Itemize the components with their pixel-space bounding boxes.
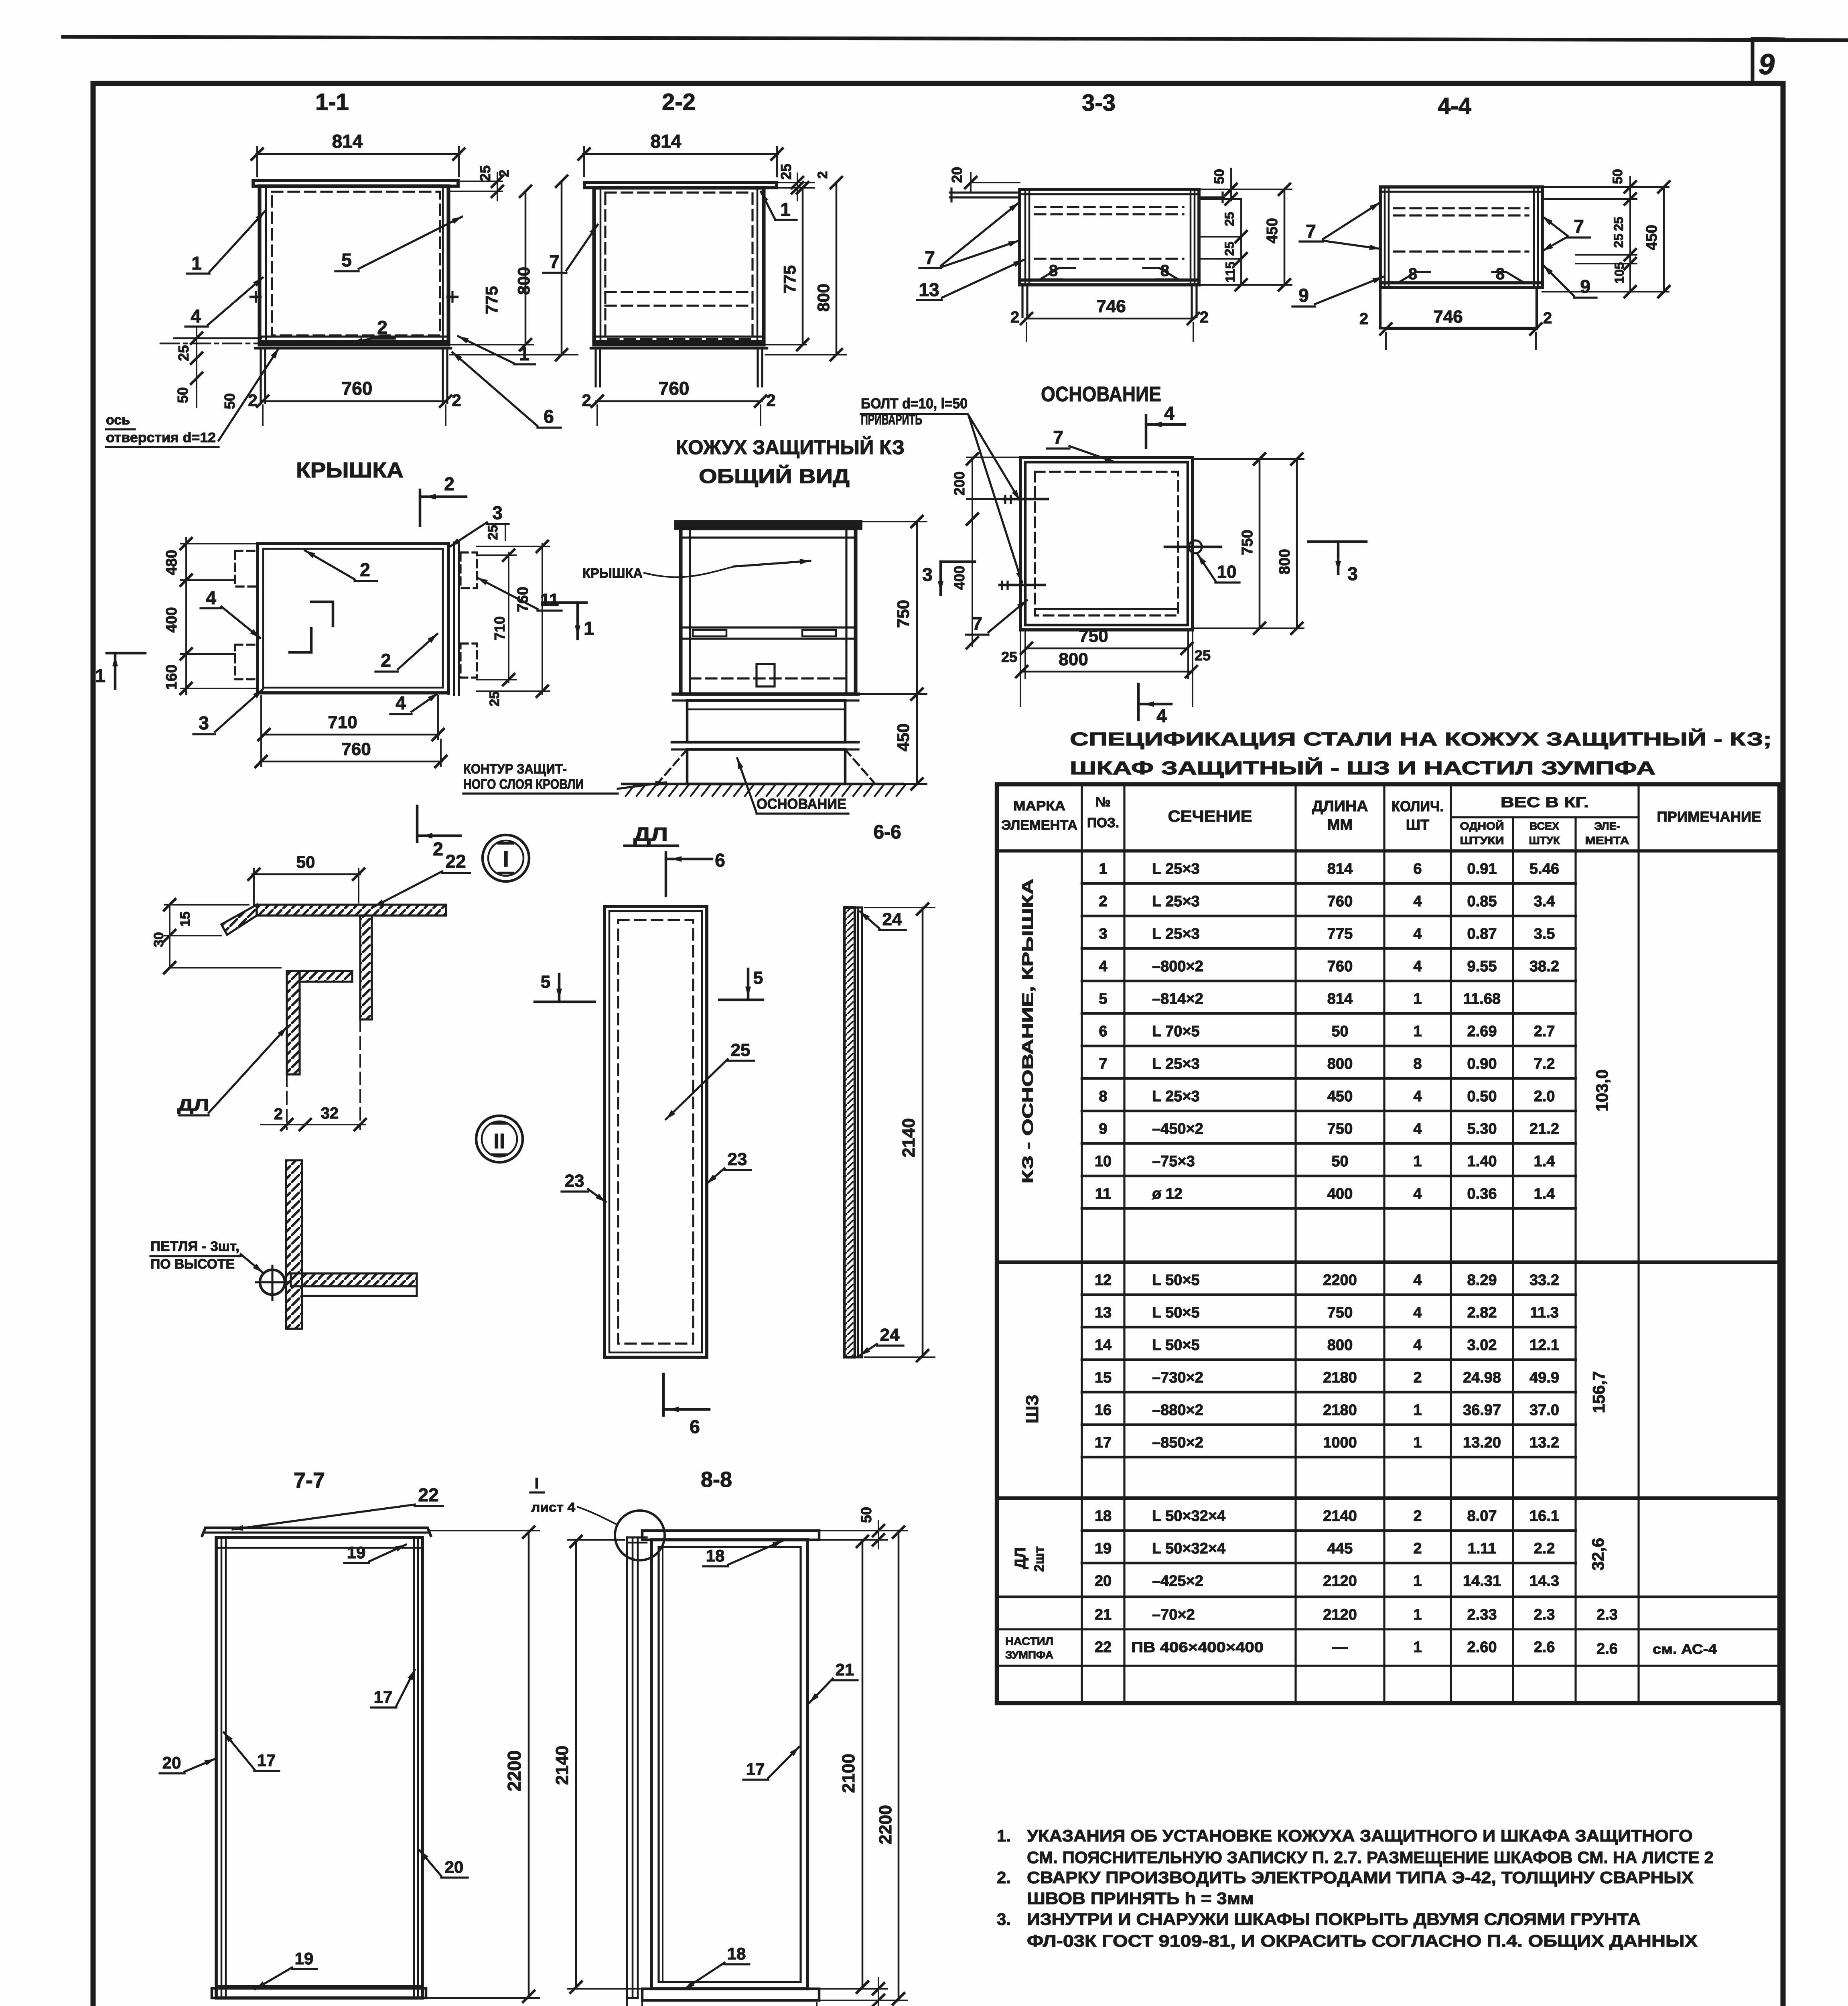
- svg-text:115: 115: [1223, 262, 1237, 282]
- svg-text:4: 4: [1413, 1088, 1422, 1105]
- svg-text:4: 4: [1413, 926, 1422, 942]
- svg-text:6: 6: [690, 1416, 700, 1437]
- svg-text:ШВОВ ПРИНЯТЬ h = 3мм: ШВОВ ПРИНЯТЬ h = 3мм: [1027, 1889, 1254, 1908]
- svg-text:775: 775: [1327, 926, 1353, 942]
- svg-text:50: 50: [1331, 1153, 1348, 1170]
- 7-7 body outline: [216, 1537, 422, 1998]
- svg-text:1.: 1.: [997, 1826, 1011, 1845]
- svg-text:800: 800: [514, 267, 533, 295]
- view 2-2 horizontal dashed shelf lines: [605, 291, 753, 293]
- svg-text:814: 814: [1327, 861, 1353, 877]
- svg-text:3-3: 3-3: [1082, 90, 1116, 116]
- kryshka main rect: [258, 544, 448, 693]
- detail I vertical web hatched: [360, 916, 372, 1019]
- view 3-3 dashed lines: [1035, 206, 1183, 208]
- detail I corner angle hatched: [287, 971, 352, 1074]
- svg-text:2200: 2200: [504, 1750, 525, 1791]
- view 4-4 base block below: [1380, 288, 1537, 328]
- svg-text:4: 4: [191, 306, 201, 327]
- svg-text:2: 2: [1543, 309, 1552, 327]
- svg-text:НАСТИЛ: НАСТИЛ: [1005, 1635, 1053, 1647]
- svg-text:2: 2: [1200, 309, 1209, 326]
- svg-text:2: 2: [452, 391, 461, 410]
- kryshka marker 1 left: [107, 652, 145, 655]
- 8-8 dim 50 bottom right: [821, 1988, 887, 1990]
- osnovanie section marker 4 bottom: [1137, 684, 1140, 720]
- svg-text:L 50×5: L 50×5: [1152, 1272, 1200, 1289]
- svg-text:ЗУМПФА: ЗУМПФА: [1005, 1649, 1053, 1661]
- svg-text:13: 13: [1095, 1304, 1112, 1321]
- svg-text:3.4: 3.4: [1534, 893, 1555, 910]
- svg-text:–880×2: –880×2: [1152, 1402, 1203, 1419]
- svg-text:2-2: 2-2: [662, 89, 696, 115]
- DL section marker 6 bottom: [662, 1374, 665, 1415]
- view 3-3 dim 20 top-left: [971, 182, 1020, 183]
- svg-text:1: 1: [1413, 1573, 1422, 1590]
- svg-text:18: 18: [706, 1546, 725, 1565]
- svg-text:5.30: 5.30: [1467, 1121, 1497, 1137]
- svg-text:2: 2: [497, 170, 512, 177]
- spec table row lines: [1082, 882, 1576, 885]
- svg-text:20: 20: [162, 1753, 181, 1772]
- svg-text:22: 22: [445, 851, 466, 872]
- 8-8 detail circle: [615, 1511, 665, 1560]
- svg-text:2.6: 2.6: [1534, 1639, 1555, 1656]
- 8-8 dim 2200: [821, 2000, 907, 2001]
- kozhuh right dims 750 450: [861, 521, 927, 522]
- view 4-4 right dims: [1542, 186, 1669, 188]
- svg-text:16.1: 16.1: [1530, 1508, 1559, 1525]
- svg-text:9.55: 9.55: [1467, 958, 1497, 975]
- svg-text:ЭЛЕ-: ЭЛЕ-: [1594, 820, 1620, 832]
- svg-text:–450×2: –450×2: [1152, 1121, 1203, 1137]
- svg-text:22: 22: [418, 1484, 438, 1505]
- kryshka section marker 2 bottom: [416, 806, 419, 842]
- svg-text:6: 6: [715, 850, 725, 871]
- section marker 5 left: [535, 1001, 594, 1003]
- view 2-2 bottom rail: [591, 347, 767, 350]
- svg-text:ШТ: ШТ: [1406, 816, 1429, 833]
- svg-text:2.69: 2.69: [1467, 1023, 1497, 1040]
- section marker 3 right of osnovanie: [1308, 540, 1366, 543]
- svg-text:2: 2: [444, 473, 454, 494]
- 8-8 dim 750: [641, 2003, 643, 2006]
- svg-text:5: 5: [753, 968, 763, 988]
- svg-text:814: 814: [651, 131, 682, 152]
- svg-text:ЭЛЕМЕНТА: ЭЛЕМЕНТА: [1001, 818, 1077, 833]
- svg-text:3.: 3.: [997, 1910, 1011, 1929]
- svg-text:СМ. ПОЯСНИТЕЛЬНУЮ ЗАПИСКУ П: СМ. ПОЯСНИТЕЛЬНУЮ ЗАПИСКУ П. 2.7. РАЗМЕЩ…: [1027, 1848, 1714, 1867]
- svg-text:16: 16: [1095, 1402, 1112, 1419]
- svg-text:50: 50: [1610, 169, 1625, 184]
- svg-text:КРЫШКА: КРЫШКА: [582, 566, 643, 581]
- section marker 5 right: [719, 999, 763, 1001]
- svg-text:–425×2: –425×2: [1152, 1573, 1203, 1590]
- svg-text:7.2: 7.2: [1534, 1056, 1555, 1072]
- detail II hinge: [260, 1270, 285, 1295]
- svg-text:1.4: 1.4: [1534, 1153, 1555, 1170]
- svg-text:400: 400: [163, 607, 180, 632]
- svg-text:6: 6: [1099, 1023, 1107, 1040]
- svg-text:4: 4: [1413, 1121, 1422, 1137]
- svg-text:1: 1: [1413, 1023, 1422, 1040]
- osnovanie left bolts: [1003, 498, 1048, 501]
- svg-text:105: 105: [1612, 262, 1627, 283]
- svg-text:8: 8: [1099, 1088, 1107, 1105]
- view 1-1 right dims: [450, 181, 502, 182]
- svg-text:19: 19: [295, 1949, 314, 1968]
- svg-text:15: 15: [1095, 1369, 1112, 1386]
- view 4-4 bottom thick line: [1380, 281, 1542, 284]
- svg-text:21: 21: [1095, 1606, 1112, 1623]
- svg-text:2.: 2.: [997, 1868, 1011, 1887]
- svg-text:25: 25: [1195, 647, 1211, 664]
- view 1-1 dim 814: [256, 153, 460, 155]
- detail I top angle bar hatched: [221, 905, 446, 935]
- svg-text:2140: 2140: [1323, 1508, 1357, 1525]
- svg-text:4: 4: [1099, 958, 1107, 975]
- svg-text:10: 10: [1217, 562, 1237, 582]
- svg-text:0.90: 0.90: [1467, 1056, 1497, 1072]
- detail I circle: [483, 835, 529, 881]
- svg-text:814: 814: [332, 131, 363, 152]
- svg-text:4: 4: [206, 587, 216, 608]
- svg-text:800: 800: [1327, 1337, 1353, 1354]
- svg-text:5: 5: [1099, 991, 1107, 1007]
- svg-text:2140: 2140: [899, 1118, 919, 1157]
- svg-text:3: 3: [922, 564, 933, 585]
- svg-text:32,6: 32,6: [1588, 1538, 1607, 1571]
- svg-text:814: 814: [1327, 991, 1353, 1007]
- kozhuh bottom flange: [673, 692, 858, 696]
- svg-text:775: 775: [482, 286, 501, 314]
- view 2-2 dashed liner: [605, 193, 753, 339]
- svg-text:ДЛ: ДЛ: [1012, 1547, 1029, 1569]
- svg-text:2.60: 2.60: [1467, 1639, 1497, 1656]
- svg-text:3: 3: [1347, 563, 1358, 584]
- svg-text:13: 13: [919, 279, 939, 300]
- svg-text:2: 2: [1413, 1369, 1422, 1386]
- svg-text:4: 4: [1164, 403, 1175, 424]
- view 1-1 top cap plate pos.5: [253, 181, 458, 186]
- svg-text:7: 7: [972, 613, 982, 634]
- svg-text:3: 3: [1099, 926, 1107, 942]
- svg-text:–75×3: –75×3: [1152, 1153, 1195, 1170]
- svg-text:ФЛ-03К ГОСТ 9109-81, И О: ФЛ-03К ГОСТ 9109-81, И ОКРАСИТЬ СОГЛАСНО…: [1027, 1931, 1698, 1950]
- svg-text:II: II: [494, 1130, 505, 1153]
- svg-text:МАРКА: МАРКА: [1013, 798, 1065, 814]
- svg-text:21.2: 21.2: [1530, 1121, 1559, 1137]
- kozhuh base dashed skirts: [658, 749, 687, 783]
- detail II horizontal bar hatched: [291, 1273, 417, 1286]
- svg-text:400: 400: [951, 566, 968, 590]
- svg-text:160: 160: [163, 664, 180, 690]
- kozhuh lower dashed line: [690, 677, 846, 679]
- kozhuh top cap: [676, 522, 861, 528]
- osnovanie dashed inner: [1035, 472, 1178, 615]
- svg-text:1000: 1000: [1323, 1434, 1357, 1451]
- detail I left dims 30 15: [169, 905, 170, 968]
- svg-text:760: 760: [1327, 958, 1353, 975]
- svg-text:4: 4: [1413, 893, 1422, 910]
- svg-text:L 70×5: L 70×5: [1152, 1023, 1200, 1040]
- svg-text:1: 1: [1413, 1402, 1422, 1419]
- svg-text:НОГО СЛОЯ КРОВЛИ: НОГО СЛОЯ КРОВЛИ: [463, 777, 584, 792]
- svg-text:30: 30: [151, 932, 166, 947]
- detail I bottom dims 2 32: [261, 1124, 365, 1125]
- view 3-3 tray outline: [1020, 189, 1199, 285]
- osnovanie square inner: [1025, 462, 1188, 625]
- svg-text:25: 25: [1222, 212, 1237, 226]
- 7-7 top cap strip: [202, 1528, 431, 1536]
- svg-text:ПРИВАРИТЬ: ПРИВАРИТЬ: [861, 411, 922, 428]
- svg-text:КОЛИЧ.: КОЛИЧ.: [1392, 798, 1444, 814]
- svg-text:24.98: 24.98: [1463, 1369, 1501, 1386]
- svg-text:2.6: 2.6: [1596, 1641, 1618, 1657]
- svg-text:746: 746: [1096, 296, 1126, 316]
- svg-text:750: 750: [894, 600, 913, 628]
- svg-text:25: 25: [1222, 242, 1237, 256]
- svg-text:25: 25: [485, 525, 501, 540]
- 7-7 inner frame lines: [221, 1537, 223, 1998]
- svg-text:2.3: 2.3: [1596, 1606, 1618, 1623]
- page outer top edge line: [63, 37, 1848, 40]
- spec table header lines: [997, 849, 1779, 853]
- svg-text:710: 710: [328, 713, 357, 732]
- svg-text:1: 1: [1413, 1606, 1422, 1623]
- kryshka right strip: [447, 544, 449, 694]
- kryshka right tabs dashed: [460, 552, 477, 588]
- svg-text:2200: 2200: [1323, 1272, 1357, 1289]
- svg-text:9: 9: [1580, 276, 1590, 297]
- view 3-3 right dims: [1199, 189, 1292, 190]
- view 1-1 bolt stubs: [251, 296, 260, 298]
- view 3-3 top bolt stub: [1199, 196, 1224, 198]
- svg-text:3.02: 3.02: [1467, 1337, 1497, 1354]
- svg-text:2120: 2120: [1323, 1606, 1357, 1623]
- view 4-4 dim 746: [1385, 328, 1537, 330]
- svg-text:23: 23: [565, 1171, 584, 1191]
- svg-text:32: 32: [321, 1105, 339, 1122]
- svg-text:13.20: 13.20: [1463, 1434, 1501, 1451]
- 8-8 dim 50 bottom left: [626, 1998, 628, 2006]
- svg-text:СЕЧЕНИЕ: СЕЧЕНИЕ: [1168, 808, 1252, 825]
- view 3-3 corner gussets with labels 8: [1039, 268, 1075, 280]
- svg-text:445: 445: [1327, 1540, 1353, 1557]
- osnovanie section marker 4 top: [1145, 415, 1148, 448]
- svg-text:22: 22: [1095, 1639, 1112, 1656]
- 6-6 dim 2140: [864, 907, 935, 908]
- svg-text:2.33: 2.33: [1467, 1606, 1497, 1623]
- svg-text:№: №: [1095, 794, 1111, 810]
- svg-text:7: 7: [925, 247, 935, 268]
- detail II circle: [476, 1116, 523, 1162]
- view 1-1 legs: [260, 348, 262, 403]
- view 3-3 dim 746: [1025, 318, 1195, 320]
- svg-text:20: 20: [445, 1858, 464, 1876]
- svg-text:L 25×3: L 25×3: [1152, 1088, 1200, 1105]
- view 1-1 bottom rail pos.6: [256, 347, 451, 350]
- svg-text:19: 19: [1095, 1540, 1112, 1557]
- 8-8 dim 2140: [568, 1539, 625, 1541]
- svg-text:25: 25: [1001, 649, 1017, 665]
- svg-text:0.36: 0.36: [1467, 1186, 1497, 1202]
- svg-text:4: 4: [1413, 1304, 1422, 1321]
- svg-text:8: 8: [1413, 1056, 1422, 1072]
- svg-text:2: 2: [766, 391, 775, 410]
- svg-text:I: I: [535, 1475, 539, 1492]
- osnovanie square outer: [1020, 457, 1193, 630]
- svg-text:760: 760: [515, 587, 531, 612]
- svg-text:50: 50: [296, 853, 315, 871]
- svg-text:1: 1: [780, 199, 791, 220]
- spec table outer border: [997, 784, 1779, 1703]
- svg-text:760: 760: [342, 378, 373, 399]
- svg-text:1.4: 1.4: [1534, 1186, 1555, 1202]
- kozhuh mid band with slots: [681, 626, 856, 628]
- detail II vertical bar hatched: [286, 1160, 302, 1329]
- svg-text:2: 2: [1099, 893, 1107, 910]
- svg-text:50: 50: [221, 393, 238, 409]
- svg-text:10: 10: [1095, 1153, 1112, 1170]
- osnovanie bottom dims: [1024, 630, 1026, 678]
- svg-text:775: 775: [780, 265, 799, 293]
- svg-text:2: 2: [815, 171, 830, 179]
- svg-text:2140: 2140: [552, 1746, 572, 1785]
- 6-6 plate hatched: [844, 908, 855, 1357]
- svg-text:L 25×3: L 25×3: [1152, 1056, 1200, 1072]
- svg-text:50: 50: [858, 1507, 874, 1523]
- svg-text:4: 4: [396, 692, 406, 713]
- svg-text:2.2: 2.2: [1534, 1540, 1555, 1557]
- svg-text:ВЕС В КГ.: ВЕС В КГ.: [1501, 794, 1589, 810]
- svg-text:7: 7: [549, 251, 560, 272]
- svg-text:ø 12: ø 12: [1152, 1186, 1183, 1202]
- kryshka bottom dims: [263, 734, 439, 736]
- svg-text:25: 25: [175, 345, 192, 361]
- svg-text:2: 2: [377, 317, 387, 338]
- svg-text:760: 760: [1327, 893, 1353, 910]
- ground hatching: [626, 785, 635, 796]
- view 2-2 right dims: [765, 182, 814, 183]
- svg-text:ПРИМЕЧАНИЕ: ПРИМЕЧАНИЕ: [1657, 808, 1761, 825]
- svg-text:2шт: 2шт: [1032, 1546, 1047, 1572]
- svg-text:12: 12: [1095, 1272, 1112, 1289]
- svg-text:ШТУК: ШТУК: [1529, 834, 1560, 847]
- svg-text:ОБЩИЙ ВИД: ОБЩИЙ ВИД: [699, 465, 850, 487]
- svg-text:2.0: 2.0: [1534, 1088, 1555, 1105]
- svg-text:200: 200: [951, 471, 968, 495]
- svg-text:50: 50: [174, 387, 191, 403]
- 7-7 bottom cap strip: [212, 1988, 426, 1998]
- svg-text:1: 1: [95, 665, 105, 686]
- svg-text:2: 2: [381, 650, 391, 671]
- svg-text:21: 21: [836, 1660, 854, 1679]
- svg-text:800: 800: [1276, 549, 1293, 574]
- view 3-3 bottom thick line: [1020, 278, 1199, 282]
- svg-text:ДЛ: ДЛ: [177, 1095, 209, 1114]
- svg-text:L 50×5: L 50×5: [1152, 1304, 1200, 1321]
- svg-text:2.3: 2.3: [1534, 1606, 1555, 1623]
- svg-text:1-1: 1-1: [315, 89, 349, 115]
- svg-text:24: 24: [880, 1325, 900, 1345]
- svg-text:103,0: 103,0: [1592, 1069, 1611, 1111]
- svg-text:1: 1: [1413, 1434, 1422, 1451]
- svg-text:2: 2: [1010, 309, 1019, 326]
- svg-text:14.3: 14.3: [1530, 1573, 1559, 1590]
- svg-text:I: I: [503, 846, 509, 871]
- svg-text:15: 15: [178, 912, 193, 927]
- svg-text:4: 4: [1413, 958, 1422, 975]
- svg-text:–70×2: –70×2: [1152, 1606, 1195, 1623]
- svg-text:ОСНОВАНИЕ: ОСНОВАНИЕ: [757, 796, 846, 812]
- svg-text:7: 7: [1099, 1056, 1107, 1072]
- svg-text:8: 8: [1049, 262, 1058, 280]
- 8-8 body outline: [651, 1540, 807, 1989]
- view 2-2 top cap plate: [584, 183, 777, 188]
- svg-text:L 25×3: L 25×3: [1152, 893, 1200, 910]
- svg-text:20: 20: [1095, 1573, 1112, 1590]
- svg-text:2180: 2180: [1323, 1369, 1357, 1386]
- svg-text:ось: ось: [106, 412, 130, 428]
- svg-text:17: 17: [374, 1687, 393, 1706]
- svg-text:710: 710: [491, 616, 508, 640]
- svg-text:7-7: 7-7: [294, 1468, 325, 1492]
- svg-text:13.2: 13.2: [1530, 1434, 1559, 1451]
- svg-text:1: 1: [191, 253, 202, 274]
- svg-text:2.7: 2.7: [1534, 1023, 1555, 1040]
- svg-text:450: 450: [1264, 218, 1281, 243]
- svg-text:4: 4: [1413, 1337, 1422, 1354]
- view 4-4 corner gussets labels 8: [1398, 272, 1430, 283]
- 8-8 top cap strip: [642, 1531, 819, 1540]
- svg-text:746: 746: [1433, 307, 1463, 327]
- svg-text:0.85: 0.85: [1467, 893, 1497, 910]
- svg-text:25: 25: [477, 165, 493, 181]
- svg-text:ВСЕХ: ВСЕХ: [1530, 820, 1559, 832]
- osnovanie right bolt with head: [1165, 546, 1221, 548]
- svg-text:ИЗНУТРИ И СНАРУЖИ ШКАФЫ: ИЗНУТРИ И СНАРУЖИ ШКАФЫ ПОКРЫТЬ ДВУМЯ СЛ…: [1027, 1910, 1641, 1929]
- sheet number box: [1751, 39, 1754, 83]
- svg-text:ММ: ММ: [1327, 816, 1353, 833]
- svg-text:ШЗ: ШЗ: [1022, 1395, 1042, 1423]
- view 2-2 legs: [594, 348, 596, 386]
- kryshka left tabs dashed: [235, 551, 258, 587]
- view 4-4 dashed lines: [1394, 207, 1528, 209]
- view 3-3 wall inner lines: [1024, 189, 1026, 285]
- svg-text:5: 5: [541, 972, 550, 992]
- svg-text:0.87: 0.87: [1467, 926, 1497, 942]
- svg-text:450: 450: [1643, 225, 1660, 250]
- svg-text:9: 9: [1099, 1121, 1107, 1137]
- svg-text:25: 25: [1611, 217, 1626, 231]
- svg-text:5.46: 5.46: [1530, 861, 1559, 877]
- svg-text:25: 25: [1611, 233, 1626, 248]
- svg-text:450: 450: [894, 723, 913, 751]
- svg-text:1: 1: [1413, 991, 1422, 1007]
- svg-text:—: —: [1333, 1639, 1348, 1656]
- svg-text:9: 9: [1759, 49, 1775, 81]
- svg-text:2: 2: [433, 839, 443, 859]
- svg-text:19: 19: [347, 1543, 366, 1562]
- svg-text:800: 800: [1327, 1056, 1353, 1072]
- svg-text:СВАРКУ ПРОИЗВОДИТЬ ЭЛЕКТР: СВАРКУ ПРОИЗВОДИТЬ ЭЛЕКТРОДАМИ ТИПА Э-42…: [1027, 1868, 1694, 1887]
- svg-text:50: 50: [1212, 169, 1227, 184]
- svg-text:2: 2: [1413, 1540, 1422, 1557]
- bolt note leaders: [968, 415, 1020, 500]
- view 1-1 box outline: [260, 186, 448, 345]
- svg-text:5: 5: [341, 250, 352, 270]
